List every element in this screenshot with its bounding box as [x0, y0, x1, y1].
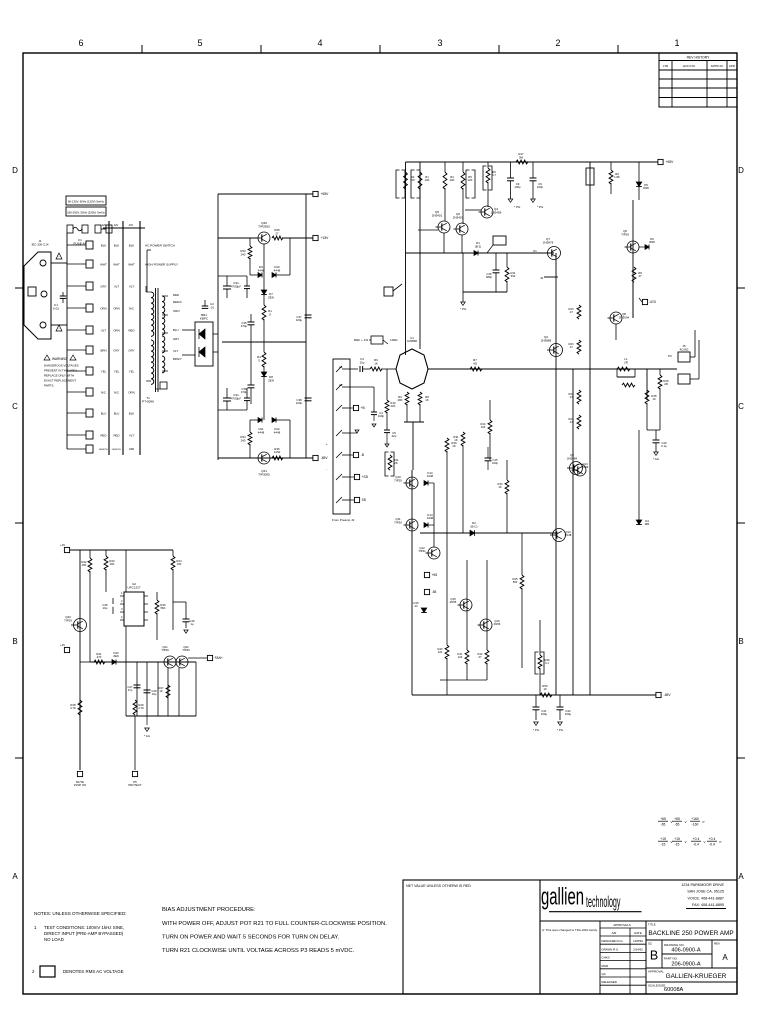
- svg-text:22K: 22K: [391, 404, 396, 408]
- svg-text:.47: .47: [569, 420, 573, 424]
- svg-text:100Ω: 100Ω: [390, 338, 398, 342]
- svg-text:5: 5: [197, 38, 202, 48]
- svg-text:10K: 10K: [110, 562, 115, 566]
- svg-text:BACKLINE 250 POWER AMP: BACKLINE 250 POWER AMP: [648, 930, 733, 937]
- svg-text:4448: 4448: [274, 430, 281, 434]
- svg-text:2N49: 2N49: [582, 465, 589, 469]
- svg-text:TIP29: TIP29: [394, 478, 402, 482]
- svg-text:TIP2955: TIP2955: [258, 225, 270, 229]
- svg-text:2: 2: [555, 38, 560, 48]
- svg-text:W06: W06: [649, 240, 655, 244]
- svg-text:FAN+: FAN+: [215, 656, 223, 660]
- svg-text:22μ: 22μ: [392, 434, 397, 438]
- svg-text:+0.4: +0.4: [709, 837, 716, 841]
- svg-text:2N56: 2N56: [494, 622, 501, 626]
- svg-text:4448: 4448: [258, 268, 265, 272]
- svg-text:PT-0098: PT-0098: [142, 400, 154, 404]
- svg-text:+0.4: +0.4: [693, 837, 700, 841]
- svg-text:GRY: GRY: [128, 348, 134, 352]
- svg-text:P3: P3: [668, 354, 672, 358]
- svg-text:P: P: [720, 840, 722, 844]
- svg-text:4Ω 8Ω: 4Ω 8Ω: [680, 347, 689, 351]
- svg-text:AC POWER SWITCH: AC POWER SWITCH: [145, 243, 175, 247]
- svg-text:4.7K: 4.7K: [70, 706, 76, 710]
- svg-text:RED: RED: [173, 293, 179, 297]
- svg-text:W06: W06: [643, 186, 649, 190]
- svg-text:1K: 1K: [425, 398, 429, 402]
- svg-text:LM3886: LM3886: [407, 339, 418, 343]
- svg-text:13K: 13K: [425, 178, 430, 182]
- svg-text:A: A: [738, 872, 744, 881]
- svg-text:REV HISTORY: REV HISTORY: [687, 55, 711, 59]
- svg-text:1: 1: [674, 38, 679, 48]
- svg-text:P: P: [703, 820, 705, 824]
- svg-text:* PG: * PG: [557, 728, 564, 732]
- svg-text:A: A: [12, 872, 18, 881]
- svg-text:TURN ON POWER AND WAIT 5 SECON: TURN ON POWER AND WAIT 5 SECONDS FOR TUR…: [162, 935, 340, 941]
- svg-text:23V: 23V: [129, 224, 134, 227]
- svg-text:BRN: BRN: [100, 348, 106, 352]
- svg-text:WITH POWER OFF, ADJUST POT R21: WITH POWER OFF, ADJUST POT R21 TO FULL C…: [162, 921, 387, 927]
- svg-text:+15: +15: [60, 543, 65, 547]
- svg-text:1K: 1K: [498, 485, 501, 489]
- svg-text:GRY: GRY: [173, 337, 179, 341]
- svg-text:MR: MR: [645, 522, 649, 526]
- svg-text:VLT: VLT: [129, 284, 134, 288]
- svg-text:WHT: WHT: [128, 262, 135, 266]
- svg-text:ZEN: ZEN: [113, 654, 118, 658]
- svg-text:10μ: 10μ: [103, 606, 108, 610]
- svg-text:(B-C): (B-C): [471, 524, 478, 528]
- svg-text:A2: A2: [339, 383, 343, 387]
- svg-text:VLT: VLT: [114, 284, 119, 288]
- svg-text:1/2W: 1/2W: [274, 450, 281, 454]
- svg-text:100μ: 100μ: [296, 318, 303, 322]
- svg-text:APPROVALS: APPROVALS: [613, 923, 630, 927]
- svg-text:1.8K: 1.8K: [614, 175, 620, 179]
- svg-text:13K: 13K: [450, 178, 455, 182]
- svg-text:47: 47: [479, 655, 482, 659]
- svg-text:206-0900-A: 206-0900-A: [671, 962, 701, 968]
- svg-text:KBPC: KBPC: [200, 316, 209, 320]
- svg-text:REF + 1% R: REF + 1% R: [354, 338, 372, 342]
- svg-text:ZEN: ZEN: [268, 295, 274, 299]
- svg-text:IEC-320-C14: IEC-320-C14: [32, 242, 49, 246]
- svg-text:DRAWING NO.: DRAWING NO.: [664, 943, 685, 947]
- svg-text:PRESENT IN THIS AREA.: PRESENT IN THIS AREA.: [44, 369, 78, 373]
- svg-text:VLT: VLT: [129, 433, 134, 437]
- svg-text:U1: U1: [533, 249, 537, 253]
- svg-text:12K: 12K: [468, 178, 473, 182]
- svg-text:DESIGNED R.G.: DESIGNED R.G.: [602, 939, 624, 943]
- svg-text:REPLACE ONLY WITH: REPLACE ONLY WITH: [44, 374, 74, 378]
- svg-text:-160: -160: [692, 822, 699, 826]
- svg-text:WHT: WHT: [113, 262, 120, 266]
- svg-text:100μ: 100μ: [296, 401, 303, 405]
- svg-text:120: 120: [458, 655, 463, 659]
- svg-text:2N5458: 2N5458: [491, 210, 502, 214]
- svg-text:SD: SD: [362, 498, 367, 502]
- svg-text:N/C: N/C: [101, 390, 106, 394]
- svg-text:VOICE: 408-441-8887: VOICE: 408-441-8887: [688, 897, 725, 901]
- svg-text:V: V: [685, 840, 687, 844]
- svg-text:C: C: [12, 402, 18, 411]
- svg-text:4448: 4448: [427, 474, 434, 478]
- svg-text:+65V: +65V: [321, 192, 330, 196]
- svg-text:RELEASED: RELEASED: [602, 980, 617, 984]
- svg-text:B: B: [738, 637, 743, 646]
- svg-text:ORN: ORN: [113, 328, 119, 332]
- svg-text:4.7K: 4.7K: [138, 706, 144, 710]
- svg-text:10μ: 10μ: [152, 692, 157, 696]
- svg-text:(B-2): (B-2): [475, 244, 481, 248]
- svg-text:680p: 680p: [486, 275, 492, 279]
- svg-text:470μ: 470μ: [241, 390, 248, 394]
- svg-text:BLK: BLK: [129, 411, 135, 415]
- svg-text:6: 6: [78, 38, 83, 48]
- svg-text:120: 120: [438, 650, 443, 654]
- svg-text:V: V: [704, 840, 706, 844]
- svg-text:V: V: [671, 820, 673, 824]
- svg-text:TEST CONDITIONS: 100mV 1kHz SI: TEST CONDITIONS: 100mV 1kHz SINE,: [44, 925, 124, 930]
- svg-text:GRN/YEL: GRN/YEL: [112, 449, 122, 451]
- svg-text:TURN R21 CLOCKWISE UNTIL VOLTA: TURN R21 CLOCKWISE UNTIL VOLTAGE ACROSS …: [162, 948, 355, 954]
- svg-text:1μ: 1μ: [190, 622, 194, 626]
- svg-text:RED/C: RED/C: [173, 300, 182, 304]
- svg-text:NO LOAD: NO LOAD: [44, 937, 64, 942]
- svg-text:1K: 1K: [454, 438, 458, 442]
- svg-text:47μ: 47μ: [128, 688, 133, 692]
- svg-text:EXACT REPLACEMENT: EXACT REPLACEMENT: [44, 379, 76, 383]
- svg-text:10: 10: [543, 687, 547, 691]
- svg-text:* PG: * PG: [460, 307, 467, 311]
- svg-text:240: 240: [241, 252, 246, 256]
- svg-text:2N5884: 2N5884: [567, 456, 578, 460]
- svg-text:D: D: [738, 166, 744, 175]
- svg-text:PROTECT: PROTECT: [128, 783, 142, 787]
- svg-text:* PG: * PG: [537, 205, 544, 209]
- svg-text:A/R: A/R: [612, 931, 617, 935]
- svg-text:+SD: +SD: [362, 475, 369, 479]
- svg-text:-0.4: -0.4: [709, 842, 715, 846]
- svg-text:90-130V, 60Hz (120V) SerNo: 90-130V, 60Hz (120V) SerNo: [68, 200, 105, 204]
- svg-text:562: 562: [511, 274, 516, 278]
- svg-text:+160: +160: [691, 817, 699, 821]
- svg-text:.47: .47: [569, 345, 573, 349]
- svg-text:IN/SP ON: IN/SP ON: [74, 783, 86, 787]
- svg-text:* AG: * AG: [653, 457, 660, 461]
- svg-text:GRN/YEL: GRN/YEL: [99, 449, 109, 451]
- svg-text:4448: 4448: [258, 430, 265, 434]
- svg-text:technology: technology: [586, 893, 620, 911]
- svg-text:TIP30: TIP30: [182, 648, 190, 652]
- svg-text:.47: .47: [569, 310, 573, 314]
- svg-text:2R: 2R: [664, 382, 668, 386]
- svg-text:TIP29: TIP29: [621, 232, 629, 236]
- svg-text:.01: .01: [210, 305, 214, 309]
- svg-text:LED: LED: [650, 300, 657, 304]
- svg-text:406-0900-A: 406-0900-A: [671, 948, 701, 954]
- svg-text:100: 100: [481, 425, 486, 429]
- svg-text:3W: 3W: [519, 155, 524, 159]
- svg-text:BLU: BLU: [101, 411, 107, 415]
- svg-text:SCALE/SIZE: SCALE/SIZE: [648, 984, 665, 988]
- svg-text:SAN JOSE CA, 95125: SAN JOSE CA, 95125: [687, 890, 724, 894]
- svg-text:BLU: BLU: [173, 328, 179, 332]
- svg-text:REV: REV: [714, 942, 720, 946]
- svg-text:PARTS.: PARTS.: [44, 384, 54, 388]
- svg-text:1K: 1K: [452, 444, 456, 448]
- svg-text:BRN/Y: BRN/Y: [173, 357, 182, 361]
- svg-text:ORN: ORN: [100, 306, 106, 310]
- svg-text:2N5886: 2N5886: [541, 338, 552, 342]
- svg-text:2/24/92: 2/24/92: [633, 947, 643, 951]
- svg-text:+15: +15: [674, 837, 680, 841]
- svg-text:APD: APD: [729, 64, 736, 68]
- svg-text:10: 10: [652, 397, 656, 401]
- svg-text:HIGH POWER SUPPLY: HIGH POWER SUPPLY: [145, 262, 178, 266]
- svg-text:2N5401: 2N5401: [453, 215, 464, 219]
- svg-text:APPROVAL: APPROVAL: [648, 970, 664, 974]
- svg-text:TIP29: TIP29: [64, 618, 72, 622]
- svg-text:LTR: LTR: [663, 64, 669, 68]
- svg-text:-0.4: -0.4: [693, 842, 699, 846]
- svg-text:240: 240: [241, 438, 246, 442]
- svg-text:-65: -65: [432, 590, 437, 594]
- svg-text:470: 470: [97, 655, 102, 659]
- svg-text:100p: 100p: [537, 185, 544, 189]
- svg-text:100p: 100p: [514, 185, 521, 189]
- svg-text:ECN NO.: ECN NO.: [683, 64, 696, 68]
- svg-text:GRN: GRN: [129, 448, 135, 451]
- svg-text:BLK: BLK: [129, 243, 135, 247]
- svg-text:4700μF: 4700μF: [231, 396, 241, 400]
- svg-text:N/C: N/C: [114, 390, 119, 394]
- svg-text:560: 560: [513, 580, 518, 584]
- svg-text:100μ: 100μ: [565, 712, 572, 716]
- svg-text:4448: 4448: [427, 516, 434, 520]
- svg-text:B: B: [12, 637, 17, 646]
- svg-text:-65: -65: [675, 822, 680, 826]
- svg-text:12V: 12V: [102, 224, 107, 227]
- svg-text:100p: 100p: [378, 414, 385, 418]
- svg-text:100p: 100p: [492, 461, 498, 465]
- svg-text:0.1μ: 0.1μ: [661, 444, 667, 448]
- svg-text:ORN: ORN: [128, 390, 134, 394]
- svg-text:* PG: * PG: [533, 728, 540, 732]
- svg-text:gallien: gallien: [541, 884, 584, 910]
- svg-text:44: 44: [415, 604, 418, 608]
- svg-text:V: V: [685, 820, 687, 824]
- svg-text:+65V: +65V: [666, 160, 675, 164]
- svg-text:3: 3: [437, 38, 442, 48]
- svg-text:DANGEROUS VOLTAGES: DANGEROUS VOLTAGES: [44, 364, 79, 368]
- svg-text:From Preamp J2: From Preamp J2: [332, 518, 355, 522]
- svg-text:A1: A1: [339, 365, 343, 369]
- svg-text:+65: +65: [674, 817, 680, 821]
- svg-text:TIP30: TIP30: [394, 520, 402, 524]
- svg-text:BIAS ADJUSTMENT PROCEDURE:: BIAS ADJUSTMENT PROCEDURE:: [162, 907, 256, 913]
- svg-text:J4: J4: [540, 276, 544, 280]
- svg-text:TIP3055: TIP3055: [258, 473, 270, 477]
- svg-text:TIP31: TIP31: [418, 549, 426, 553]
- svg-text:A: This spec changed to TDA-20: A: This spec changed to TDA-200x family: [542, 928, 598, 932]
- svg-text:150: 150: [177, 562, 182, 566]
- svg-text:RED: RED: [113, 433, 119, 437]
- svg-text:ZEN: ZEN: [268, 378, 274, 382]
- svg-text:BLK: BLK: [114, 243, 120, 247]
- svg-text:12V: 12V: [114, 224, 119, 227]
- svg-text:12/8/99: 12/8/99: [633, 939, 643, 943]
- svg-text:DIRECT INPUT (PRE-AMP BYPASSED: DIRECT INPUT (PRE-AMP BYPASSED): [44, 931, 124, 936]
- svg-text:YEL: YEL: [101, 369, 107, 373]
- svg-text:+15V: +15V: [321, 236, 330, 240]
- svg-text:UPC1237: UPC1237: [127, 585, 140, 589]
- svg-text:RED: RED: [100, 433, 106, 437]
- svg-text:470μ: 470μ: [241, 324, 248, 328]
- svg-text:ORN: ORN: [173, 309, 179, 313]
- svg-text:* PG: * PG: [514, 205, 521, 209]
- svg-text:DENOTES RMS AC VOLTAGE: DENOTES RMS AC VOLTAGE: [63, 969, 124, 974]
- svg-text:GALLIEN-KRUEGER: GALLIEN-KRUEGER: [666, 973, 727, 980]
- svg-text:B: B: [650, 949, 658, 963]
- svg-text:-65: -65: [661, 822, 666, 826]
- svg-text:2N55: 2N55: [450, 600, 457, 604]
- svg-text:1234 PARKMOOR DRIVE: 1234 PARKMOOR DRIVE: [681, 883, 724, 887]
- svg-text:2N48: 2N48: [565, 533, 572, 537]
- svg-text:+65: +65: [432, 573, 438, 577]
- svg-text:ORN: ORN: [113, 306, 119, 310]
- svg-text:-15: -15: [661, 842, 666, 846]
- svg-text:DRAWN R.G.: DRAWN R.G.: [602, 947, 620, 951]
- svg-text:CHKD: CHKD: [602, 956, 610, 960]
- svg-text:100μ: 100μ: [541, 712, 548, 716]
- svg-text:FAX: 408-441-8895: FAX: 408-441-8895: [692, 903, 724, 907]
- svg-text:SZ: SZ: [648, 942, 652, 946]
- svg-text:1K: 1K: [159, 689, 162, 693]
- svg-text:N/C: N/C: [129, 306, 134, 310]
- svg-text:NET VALUE UNLESS OTHERW IS RED: NET VALUE UNLESS OTHERW IS RED: [406, 884, 471, 888]
- svg-text:56K: 56K: [161, 606, 166, 610]
- svg-text:2K: 2K: [394, 461, 398, 465]
- svg-text:TIP29: TIP29: [161, 648, 169, 652]
- svg-text:2N5878: 2N5878: [543, 240, 554, 244]
- svg-text:APPD Dt.: APPD Dt.: [711, 64, 724, 68]
- svg-text:+15: +15: [60, 643, 65, 647]
- svg-text:-65V: -65V: [664, 693, 672, 697]
- svg-text:YEL: YEL: [129, 369, 135, 373]
- svg-text:.47: .47: [569, 395, 573, 399]
- svg-text:NOTES: UNLESS OTHERWISE SPECIF: NOTES: UNLESS OTHERWISE SPECIFIED:: [34, 911, 127, 916]
- svg-text:D: D: [12, 166, 18, 175]
- svg-text:2R: 2R: [624, 360, 628, 364]
- svg-text:180-260V, 50Hz (230V) SerNo: 180-260V, 50Hz (230V) SerNo: [67, 211, 105, 215]
- svg-text:DATE: DATE: [634, 931, 642, 935]
- svg-text:WARNING: WARNING: [52, 357, 68, 361]
- svg-text:20K: 20K: [398, 398, 403, 402]
- svg-text:VLT: VLT: [101, 328, 106, 332]
- svg-text:10μ: 10μ: [360, 360, 365, 364]
- svg-text:1K: 1K: [374, 361, 378, 365]
- svg-text:RED: RED: [128, 328, 134, 332]
- svg-text:4448: 4448: [274, 268, 281, 272]
- svg-text:YEL: YEL: [114, 369, 120, 373]
- svg-text:TITLE: TITLE: [648, 923, 656, 927]
- svg-text:4.7: 4.7: [492, 173, 496, 177]
- svg-text:* AG: * AG: [144, 734, 151, 738]
- svg-text:2N5401: 2N5401: [432, 213, 443, 217]
- svg-text:VLT: VLT: [173, 349, 178, 353]
- svg-text:QA: QA: [602, 972, 606, 976]
- svg-text:+65: +65: [660, 817, 666, 821]
- svg-text:0.01: 0.01: [53, 307, 59, 311]
- svg-text:BLK: BLK: [101, 243, 107, 247]
- svg-text:SD: SD: [156, 387, 160, 391]
- svg-text:2N3904: 2N3904: [619, 315, 630, 319]
- svg-text:27: 27: [275, 231, 279, 235]
- svg-text:+: +: [326, 442, 328, 446]
- svg-text:BLU: BLU: [114, 411, 120, 415]
- svg-text:4700μF: 4700μF: [231, 284, 241, 288]
- svg-text:WHT: WHT: [100, 262, 107, 266]
- svg-text:+15: +15: [660, 837, 666, 841]
- svg-text:60008A: 60008A: [664, 987, 684, 993]
- svg-text:V: V: [671, 840, 673, 844]
- svg-text:47: 47: [638, 274, 642, 278]
- svg-text:MGR: MGR: [602, 964, 609, 968]
- svg-text:-15: -15: [675, 842, 680, 846]
- svg-text:GRY: GRY: [100, 284, 106, 288]
- svg-text:GRY: GRY: [113, 348, 119, 352]
- svg-text:10K: 10K: [82, 563, 87, 567]
- svg-text:0.1: 0.1: [545, 661, 549, 665]
- svg-text:-65V: -65V: [321, 456, 329, 460]
- svg-text:C: C: [738, 402, 744, 411]
- svg-text:A: A: [722, 953, 728, 962]
- svg-text:PART NO.: PART NO.: [664, 957, 678, 961]
- svg-text:4: 4: [317, 38, 322, 48]
- svg-text:-: -: [326, 467, 327, 471]
